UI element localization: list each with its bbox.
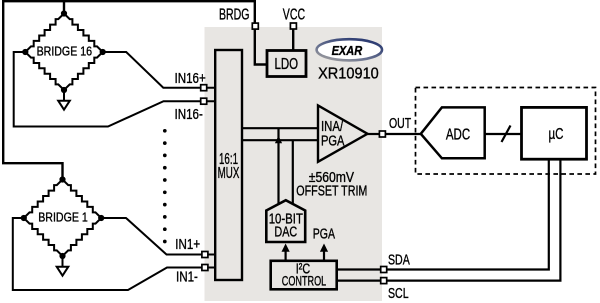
pin SCL	[381, 278, 387, 284]
arrow I2C to DAC	[282, 244, 290, 262]
svg-text:EXAR: EXAR	[332, 43, 363, 58]
wire SCL net	[388, 159, 561, 281]
svg-text:CONTROL: CONTROL	[282, 272, 327, 289]
wire DAC to upper wire	[277, 128, 279, 204]
pin OUT	[379, 131, 385, 137]
wire SDA net	[388, 159, 549, 270]
EXAR logo	[317, 39, 382, 60]
svg-text:PGA: PGA	[313, 224, 335, 241]
DAC block	[266, 200, 305, 242]
wire VCC to LDO	[292, 29, 294, 51]
wire OUT pin to ADC	[386, 133, 421, 135]
wire IN16+ from bridge16	[103, 52, 215, 88]
svg-text:OUT: OUT	[389, 114, 411, 131]
svg-text:VCC: VCC	[283, 6, 305, 24]
svg-text:IN16+: IN16+	[175, 70, 207, 87]
I2C control block	[271, 261, 337, 290]
wire I2C to SCL pin	[337, 280, 380, 282]
wire ADC to uC	[485, 133, 522, 135]
wire lower wire to DAC	[292, 140, 294, 204]
bridge 1	[21, 176, 105, 259]
I2C label	[282, 260, 327, 289]
bus slash	[502, 126, 511, 143]
IC shaded area	[205, 27, 383, 301]
MUX block	[215, 50, 242, 280]
svg-text:BRDG: BRDG	[219, 6, 249, 24]
svg-text:BRIDGE 1: BRIDGE 1	[38, 211, 88, 225]
ground bridge1	[57, 256, 69, 276]
wire MUX to INA upper	[241, 127, 318, 129]
svg-text:IN16-: IN16-	[175, 106, 203, 123]
wire MUX to INA lower	[241, 139, 318, 141]
svg-text:DAC: DAC	[274, 223, 297, 240]
svg-text:SDA: SDA	[388, 252, 410, 268]
dotted channel ellipsis	[163, 129, 167, 243]
microcontroller uC block	[522, 107, 587, 159]
label offset trim value	[296, 169, 367, 199]
dashed external box	[416, 88, 596, 175]
MUX label	[218, 150, 240, 182]
pin IN16+	[201, 85, 207, 91]
svg-text:BRIDGE 16: BRIDGE 16	[37, 45, 92, 59]
pin BRDG	[252, 23, 258, 29]
INA/PGA label	[321, 118, 345, 149]
pin IN1-	[202, 265, 208, 271]
op-amp INA/PGA	[318, 106, 368, 162]
wire INA output to OUT pin	[366, 133, 379, 135]
pin IN16-	[201, 98, 207, 104]
svg-text:IN1+: IN1+	[175, 236, 200, 253]
svg-text:SCL: SCL	[388, 285, 409, 301]
DAC label	[269, 210, 303, 240]
svg-text:MUX: MUX	[218, 164, 240, 182]
arrow I2C to PGA gain	[320, 244, 328, 262]
wire IN1+ from bridge1	[101, 218, 215, 255]
ground bridge16	[58, 90, 70, 110]
svg-text:OFFSET TRIM: OFFSET TRIM	[296, 182, 367, 199]
pin VCC	[290, 23, 296, 29]
svg-text:IN1-: IN1-	[176, 268, 198, 285]
svg-text:µC: µC	[549, 124, 564, 142]
svg-text:ADC: ADC	[446, 125, 470, 143]
svg-text:LDO: LDO	[274, 54, 298, 72]
svg-text:PGA: PGA	[321, 132, 345, 149]
wire I2C to SDA pin	[337, 268, 380, 270]
wire BRDG pin to LDO	[255, 29, 267, 65]
ADC block	[421, 107, 485, 158]
wire BRDG net top	[3, 1, 255, 181]
wire IN16- from bridge16	[14, 52, 215, 127]
LDO block	[267, 51, 306, 77]
bridge 16	[22, 10, 106, 93]
arrowhead DAC output	[275, 136, 282, 143]
pin IN1+	[202, 252, 208, 258]
svg-text:XR10910: XR10910	[318, 65, 379, 83]
wire bridge16 top stub	[63, 1, 65, 15]
wire IN1- from bridge1	[13, 218, 215, 290]
pin SDA	[381, 267, 387, 273]
